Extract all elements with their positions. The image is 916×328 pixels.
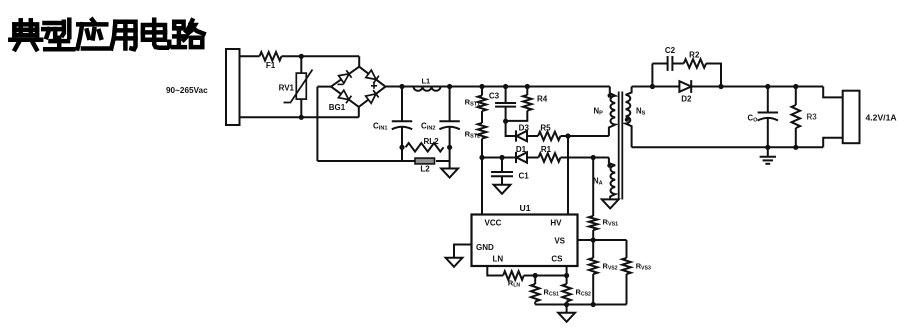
capacitor CIN2 [439, 87, 459, 162]
ground CS [558, 305, 575, 322]
svg-text:LN: LN [493, 255, 504, 264]
svg-text:CS: CS [551, 255, 563, 264]
node RVS1 junction [591, 155, 596, 160]
node Co top [765, 84, 770, 89]
svg-text:R2: R2 [689, 51, 700, 60]
pin VCC [485, 218, 502, 227]
label NP [594, 107, 604, 117]
svg-text:L1: L1 [421, 77, 430, 86]
node R3 top [793, 84, 798, 89]
node R4 top [525, 84, 530, 89]
node Cin1 RL2 junction [399, 145, 404, 150]
svg-text:F1: F1 [266, 61, 276, 70]
wire HV column [567, 136, 569, 215]
bridge diode bottom-left [338, 90, 351, 103]
node C3/R4 junction [503, 119, 508, 124]
svg-text:RL2: RL2 [423, 137, 439, 146]
node C3 top [503, 84, 508, 89]
pin HV [550, 218, 562, 227]
pin CS [551, 255, 563, 264]
node VS junction [591, 237, 596, 242]
diode D2 [679, 80, 692, 103]
svg-text:R5: R5 [540, 124, 551, 133]
wire bridge minus out [317, 86, 331, 88]
wire RST2 to D1 [482, 157, 516, 159]
capacitor C3 [489, 87, 516, 122]
varistor RV1 arrow [284, 70, 313, 103]
resistor RVS2 [589, 240, 618, 305]
capacitor CIN1 [392, 87, 412, 162]
inductor L2 [415, 158, 450, 173]
capacitor CO [748, 87, 779, 148]
bridge plus sign [371, 83, 377, 89]
svg-text:4.2V/1A: 4.2V/1A [866, 113, 897, 123]
wire R5 to Np bottom [561, 135, 609, 137]
diode D3 [516, 124, 529, 142]
phase dot NS [625, 118, 629, 122]
label BG1 [329, 103, 346, 112]
resistor R3 [792, 87, 818, 148]
node CS ground [564, 302, 569, 307]
phase dot NP [608, 94, 612, 98]
resistor R4 [506, 87, 548, 121]
resistor RLN [503, 271, 524, 288]
label U1 [520, 203, 531, 213]
resistor RVS1 [589, 158, 618, 241]
wire secondary bottom rail [632, 146, 824, 148]
wire main rail [386, 86, 610, 88]
svg-text:R4: R4 [537, 94, 548, 103]
svg-text:L2: L2 [420, 165, 430, 174]
resistor RVS3 [622, 240, 651, 305]
wire snubber right riser [706, 64, 721, 87]
svg-text:C1: C1 [519, 172, 530, 181]
wire plug to F1 [240, 55, 260, 57]
bridge minus sign [338, 83, 344, 85]
node Co bottom [765, 145, 770, 150]
label CIN1 [373, 122, 388, 132]
node RV1 bottom junction [299, 115, 304, 120]
wire CS pin [566, 266, 568, 276]
ground U1 GND [446, 258, 463, 267]
node Cin1 top [399, 84, 404, 89]
fuse F1 [260, 52, 282, 70]
ground C1 [494, 185, 511, 194]
svg-text:U1: U1 [520, 203, 531, 213]
capacitor C1 [491, 158, 529, 185]
svg-text:R3: R3 [807, 113, 818, 122]
wire C3 node to D3 [506, 121, 516, 136]
pin LN [493, 255, 504, 264]
bridge diode bottom-right [366, 90, 379, 103]
node VCC/D1 junction [479, 155, 484, 160]
AC input plug connector [226, 49, 240, 125]
ground NA [602, 199, 619, 208]
wire VCC column [481, 158, 483, 215]
wire LN pin [487, 266, 503, 276]
wire R1 to Na top [561, 157, 609, 159]
node R3 bottom [793, 145, 798, 150]
inductor L1 [414, 77, 441, 91]
transformer core [619, 92, 623, 200]
node Cin2 RL2 junction [447, 145, 452, 150]
op-amp U1 box [472, 215, 578, 267]
wire control bottom rail [535, 304, 626, 306]
wire GND pin [454, 245, 472, 258]
svg-text:C3: C3 [489, 92, 500, 101]
svg-text:BG1: BG1 [329, 103, 346, 112]
svg-text:GND: GND [476, 243, 494, 252]
resistor RL2 [406, 137, 444, 152]
svg-text:VS: VS [554, 237, 565, 246]
label output 4.2V/1A [866, 113, 897, 123]
ground output earth [760, 147, 776, 164]
bridge diode top-left [339, 70, 352, 83]
diode D1 [516, 145, 527, 163]
AC input label 90~265Vac [166, 86, 208, 95]
node Cin2 top [447, 84, 452, 89]
svg-text:D2: D2 [681, 95, 692, 104]
node CS/RCS2 junction [564, 273, 569, 278]
node snubber right [718, 84, 723, 89]
wire RLN to CS column [524, 275, 567, 277]
bridge stub top [358, 56, 360, 66]
title 典型应用电路 [10, 20, 203, 50]
svg-text:90~265Vac: 90~265Vac [166, 86, 208, 95]
wire plug bottom to bridge [240, 116, 359, 118]
bridge diode top-right [366, 70, 379, 83]
svg-text:C2: C2 [665, 46, 676, 55]
wire RV1 column [300, 56, 302, 117]
node Rst1 top [479, 84, 484, 89]
node HV junction [565, 133, 570, 138]
svg-text:D3: D3 [519, 124, 530, 133]
pin GND [476, 243, 494, 252]
winding NS [626, 87, 632, 148]
node RVS2 bottom [591, 302, 596, 307]
svg-text:RV1: RV1 [279, 84, 295, 93]
node F1/RV1 junction [299, 54, 304, 59]
winding NA [609, 158, 615, 200]
wire negative rail [317, 160, 415, 162]
label NA [593, 177, 603, 187]
wire snubber left riser [651, 64, 653, 87]
wire RST1-RST2 [481, 111, 483, 123]
label NS [636, 107, 646, 117]
wire F1 to bridge top branch [282, 55, 360, 57]
resistor RCS1 [531, 276, 559, 305]
node snubber left [650, 84, 655, 89]
svg-text:R1: R1 [541, 145, 552, 154]
varistor RV1 body [296, 73, 306, 99]
svg-text:VCC: VCC [485, 218, 502, 227]
bridge stub bottom [358, 107, 360, 117]
resistor RST2 [465, 123, 487, 158]
resistor R2 [684, 51, 706, 68]
svg-text:D1: D1 [516, 145, 527, 154]
ground input rail [441, 161, 458, 178]
winding NP [609, 87, 615, 137]
resistor RCS2 [562, 276, 591, 305]
wire secondary top rail [632, 86, 824, 88]
resistor RST1 [465, 87, 487, 112]
node C1 junction [499, 155, 504, 160]
resistor R5 [527, 124, 561, 141]
phase dot NA [607, 164, 611, 168]
wire output bottom stub [823, 138, 843, 148]
label CIN2 [421, 122, 436, 132]
resistor R1 [527, 145, 561, 162]
svg-text:HV: HV [550, 218, 562, 227]
wire output top stub [823, 87, 843, 98]
node RCS1 top [533, 273, 538, 278]
pin VS [554, 237, 565, 246]
wire negative riser [316, 87, 318, 161]
label RV1 [279, 84, 295, 93]
bridge BG1 diamond [331, 67, 386, 107]
capacitor C2 [652, 46, 683, 71]
output connector [843, 91, 860, 144]
wire VS row [578, 239, 627, 241]
